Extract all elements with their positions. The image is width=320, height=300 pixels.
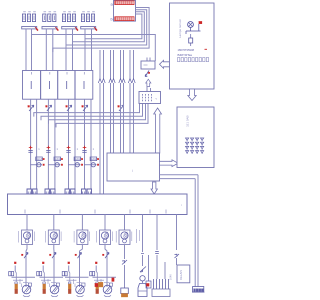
red dot G2 <box>61 158 63 160</box>
fuse box bus <box>8 194 188 215</box>
connector D4 <box>175 254 180 265</box>
fuse group F4 <box>81 12 96 29</box>
switch S5 <box>119 105 124 111</box>
switch D2 <box>140 267 146 273</box>
bus connector block 4 <box>82 189 92 194</box>
wire relay 2 down-right <box>54 99 56 189</box>
connector tick 2 <box>46 151 50 153</box>
svg-text:Lampe temoin: Lampe temoin <box>178 19 182 38</box>
valve symbol V3 <box>69 163 81 167</box>
wire motor 2 down <box>53 245 55 288</box>
switch motor 3 <box>78 253 82 259</box>
switch motor 1 <box>24 253 28 259</box>
relay block K1-K4 <box>23 71 93 100</box>
label right of M5 <box>137 229 140 243</box>
duct wire pair <box>195 175 198 287</box>
red mark group 3 <box>67 146 71 150</box>
connector X1 red pin rows <box>115 1 134 21</box>
hollow arrow legend down <box>188 89 196 101</box>
wire bundle B4 <box>56 104 148 128</box>
red dot S5 <box>118 105 120 107</box>
pump motor M4 <box>97 230 113 245</box>
wire motor 4 down <box>105 245 107 288</box>
red mark group 1 <box>29 146 33 150</box>
wire motor 1 down <box>26 245 27 288</box>
wire bundle B2 <box>41 104 143 121</box>
switch dot motor 3 <box>75 254 77 256</box>
wire bundle A4 <box>85 14 142 43</box>
red mark group 2 <box>47 146 51 150</box>
injector wiring 4 <box>90 266 116 285</box>
junction box P1 <box>139 92 161 104</box>
wire bundle A3 <box>73 12 145 46</box>
red dot S3 <box>66 105 68 107</box>
svg-text:GCA: GCA <box>36 157 43 161</box>
wire bundle A-long <box>32 35 156 62</box>
switch dot motor 1 <box>21 254 23 256</box>
fuse group F2 <box>42 12 57 29</box>
wire relay 1 down-left <box>30 99 32 189</box>
connector tick 3 <box>66 151 70 153</box>
hollow arrow M1 to bus <box>151 182 157 194</box>
red mark cluster 4 <box>112 278 115 282</box>
svg-text:GCA: GCA <box>91 157 98 161</box>
fuse group F3 <box>62 12 77 29</box>
wire bundle B3 <box>49 104 146 124</box>
label 1 col 4 <box>93 147 95 151</box>
wire relay 4 down-right <box>90 99 92 189</box>
wire relay 3 down-right <box>74 99 76 189</box>
label D4 <box>169 274 173 280</box>
red dot G3 <box>81 158 83 160</box>
connector tick 4 <box>82 151 86 153</box>
switch dot motor 4 <box>102 254 104 256</box>
injector wiring 3 <box>62 266 88 285</box>
red dot G4 <box>97 158 99 160</box>
pump motor M3 <box>74 230 90 245</box>
svg-text:GCA: GCA <box>75 157 82 161</box>
red dot V2 <box>61 164 63 166</box>
red mark cluster 3 <box>95 283 98 287</box>
red mark group 4 <box>83 146 87 150</box>
multi-pin plug <box>192 287 204 293</box>
svg-text:B48YRTas: B48YRTas <box>178 53 193 57</box>
red terminal 3 <box>68 262 70 264</box>
switch motor 4 <box>105 253 109 259</box>
motor 3 <box>75 282 85 296</box>
wire motor 3 down <box>80 245 83 288</box>
control unit M1 <box>107 153 160 181</box>
capacitor 2 <box>43 282 46 294</box>
injector wiring 1 <box>9 266 35 285</box>
legend red flag <box>199 21 202 31</box>
injector wiring 2 <box>37 266 63 285</box>
valve symbol V2 <box>48 163 60 167</box>
red arrow mark 3 <box>75 27 78 31</box>
switch S5 <box>145 71 149 77</box>
motor 2 <box>50 282 60 296</box>
wire to level sensor D2 <box>141 215 144 267</box>
switch S3 <box>67 105 72 111</box>
bus connector block 3 <box>65 189 75 194</box>
hollow arrow left <box>160 60 173 68</box>
hollow arrow M1 to T1 <box>160 160 179 167</box>
label 1 col 2 <box>56 147 58 151</box>
connector tick 1 <box>28 151 32 153</box>
fuse group F1 <box>22 12 37 29</box>
svg-text:RELAIS: RELAIS <box>179 270 183 280</box>
wire relay 1 down-right <box>36 99 38 189</box>
connector break D1 <box>122 260 127 265</box>
switch S1 <box>29 105 34 111</box>
valve symbol V4 <box>85 163 97 167</box>
duct horizontal pair <box>160 175 199 179</box>
red dot S2 <box>46 105 48 107</box>
red dot V3 <box>81 164 83 166</box>
red mark D3 <box>146 283 149 286</box>
svg-text:321 0AB: 321 0AB <box>186 115 190 127</box>
sensor symbol G2 <box>54 157 61 161</box>
wire relay 2 down-left <box>47 99 49 189</box>
legend fuse symbol <box>189 34 193 46</box>
red dot S5 <box>148 72 150 74</box>
capacitor 1 <box>15 282 18 294</box>
legend glyph row <box>178 58 209 62</box>
label a <box>111 2 114 7</box>
hollow arrow up <box>154 108 162 153</box>
legend box <box>170 3 215 89</box>
relay box D4 <box>177 265 190 283</box>
red dot V1 <box>43 164 45 166</box>
wire to relay box D4 <box>176 215 178 251</box>
bus connector block 1 <box>27 189 37 194</box>
svg-text:18076TRW08: 18076TRW08 <box>178 48 195 52</box>
valve symbol V1 <box>31 163 42 167</box>
sensor symbol G4 <box>90 157 97 161</box>
legend wire <box>186 31 201 34</box>
capacitor 4 <box>96 282 99 294</box>
red terminal 2 <box>42 262 44 264</box>
wires fuse bars to relays <box>26 29 92 70</box>
red dot G1 <box>43 158 45 160</box>
wire relay 3 down-left <box>68 99 70 189</box>
float D2 <box>140 276 145 283</box>
wire bus to motor 1 <box>26 215 28 231</box>
wire to module E1 <box>147 58 150 62</box>
label b <box>111 17 114 22</box>
capacitor 3 <box>68 282 71 294</box>
sensor symbol G1 <box>36 157 43 161</box>
wire comb 2 <box>164 262 166 279</box>
sensor symbol G3 <box>74 157 81 161</box>
element D3 <box>146 281 151 288</box>
red dot S4 <box>82 105 84 107</box>
switch dot motor 2 <box>49 254 51 256</box>
red terminal 4 <box>95 262 97 264</box>
orange mark cluster 4 <box>98 282 103 287</box>
wire bundle A2 <box>66 10 147 49</box>
wire bus to motor 5 <box>124 215 126 231</box>
wire D3 <box>148 255 150 281</box>
legend text line 2 <box>178 53 193 57</box>
wire bus to motor 3 <box>81 215 83 231</box>
bus connector block 2 <box>45 189 55 194</box>
switch S4 <box>83 105 88 111</box>
red terminal 1 <box>14 262 16 264</box>
connector X1 outline <box>114 1 136 22</box>
svg-text:GCA: GCA <box>54 157 61 161</box>
wire bundle B1 <box>34 104 140 117</box>
label 1 col 3 <box>77 147 79 151</box>
wire S5 down <box>147 87 151 92</box>
wire relay 4 down-left <box>84 99 86 189</box>
legend text line 1 <box>178 48 208 52</box>
sensor D1 <box>121 288 129 297</box>
wire comb 1 <box>155 215 159 280</box>
switch motor 2 <box>52 253 56 259</box>
red arrow mark 1 <box>35 27 38 31</box>
switch S2 <box>47 105 52 111</box>
motor 4 <box>103 282 113 296</box>
red arrow mark 2 <box>55 27 58 31</box>
red arrow mark 4 <box>94 27 97 31</box>
pump motor M1 <box>19 230 35 245</box>
svg-text:1040: 1040 <box>169 274 173 280</box>
module E1 <box>141 61 155 69</box>
motor 1 <box>22 282 32 296</box>
red dot S1 <box>28 105 30 107</box>
harness wires to control unit <box>98 50 135 194</box>
pump motor M2 <box>46 230 62 245</box>
wire bundle A1 <box>53 8 149 53</box>
reservoir D2 <box>138 284 147 297</box>
label 1 col 1 <box>38 147 40 151</box>
red dot V4 <box>97 164 99 166</box>
legend lamp <box>188 22 194 31</box>
wire to sensor D1 <box>124 245 126 289</box>
connector block T1 <box>177 107 214 168</box>
wire bus to motor 2 <box>53 215 55 231</box>
hollow arrow up small <box>146 79 151 86</box>
wire bus to motor 4 <box>104 215 106 231</box>
heater grid D5 <box>152 279 170 297</box>
pump motor M5 <box>116 230 132 245</box>
